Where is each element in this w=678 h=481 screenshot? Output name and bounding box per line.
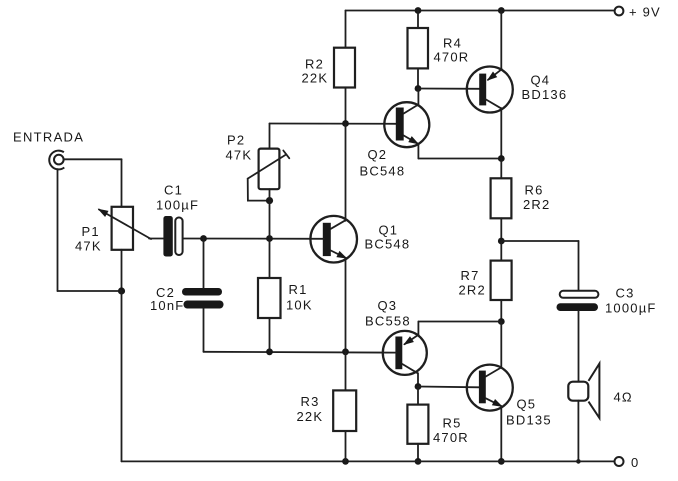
svg-text:P1: P1: [82, 224, 100, 239]
connector J1 input jack: [49, 151, 64, 170]
wire R6 bottom to output node: [500, 218, 502, 241]
resistor R2: [302, 48, 356, 88]
wire jack to P1 top: [64, 159, 122, 207]
resistor R7: [459, 261, 512, 300]
svg-text:470R: 470R: [433, 430, 469, 445]
transistor Q1: [310, 216, 410, 263]
wire node to R1: [269, 239, 271, 279]
svg-text:Q5: Q5: [517, 397, 537, 412]
svg-text:R6: R6: [525, 183, 544, 198]
wire R7 bottom: [500, 300, 502, 322]
svg-text:BD136: BD136: [522, 87, 568, 102]
junction Q4 collector / Q2 emitter / R6: [498, 155, 505, 162]
wire jack sleeve down and across: [58, 169, 122, 291]
svg-text:+ 9V: + 9V: [629, 5, 661, 20]
junction R3 / ground rail: [342, 458, 349, 465]
wire mid rail C2 to Q3 base: [204, 351, 397, 354]
svg-text:R7: R7: [461, 268, 480, 283]
junction R5 / ground rail: [415, 458, 422, 465]
wire R5 bottom to ground rail: [417, 444, 419, 462]
svg-text:BC558: BC558: [365, 314, 411, 329]
node 0V terminal: [615, 455, 640, 470]
wire C3 to speaker: [578, 311, 580, 382]
wire Q4 collector down: [500, 108, 502, 158]
junction C1 / C2: [200, 235, 207, 242]
junction top rail / Q4 emitter: [498, 7, 505, 14]
svg-text:ENTRADA: ENTRADA: [13, 130, 84, 145]
svg-text:R1: R1: [289, 282, 308, 297]
svg-text:47K: 47K: [226, 148, 253, 163]
svg-text:Q1: Q1: [379, 223, 399, 238]
junction P2 wiper loop: [266, 197, 273, 204]
resistor R4: [408, 28, 470, 68]
svg-text:Q3: Q3: [378, 298, 398, 313]
wire ground node down to rail: [121, 291, 123, 461]
capacitor C2: [150, 285, 224, 313]
wire Q3 collector down: [417, 373, 419, 386]
wire P1 wiper to C1: [149, 238, 163, 240]
node +9V terminal: [615, 5, 661, 20]
wire Q1 collector: [345, 124, 347, 221]
junction P1 bottom / jack ground: [118, 287, 125, 294]
junction Q5 emitter / ground rail: [498, 458, 505, 465]
wire R3 bottom to ground rail: [345, 431, 347, 461]
transistor Q3: [365, 298, 427, 375]
wire rail to R2: [345, 11, 347, 48]
svg-text:2R2: 2R2: [459, 283, 486, 298]
wire top +9V rail: [346, 10, 615, 12]
svg-text:BC548: BC548: [360, 164, 406, 179]
svg-text:R5: R5: [443, 416, 462, 431]
wire Q2 collector: [417, 89, 419, 105]
svg-text:C3: C3: [616, 286, 635, 301]
junction Q3 collector / R5 / Q5 base: [415, 383, 422, 390]
wire P1 bottom: [121, 250, 123, 291]
capacitor C3: [557, 286, 657, 316]
svg-text:Q4: Q4: [531, 73, 551, 88]
wire P2 top to Q2 base rail: [269, 124, 271, 149]
svg-text:P2: P2: [227, 133, 245, 148]
junction P2-R1 / Q1 base: [266, 235, 273, 242]
wire Q4 emitter to +9V rail: [500, 11, 502, 70]
svg-text:BC548: BC548: [365, 237, 411, 252]
wire C2 down to mid rail: [203, 309, 205, 352]
resistor R5: [407, 405, 468, 445]
wire Q5 emitter to ground rail: [500, 406, 502, 461]
svg-text:22K: 22K: [302, 71, 329, 86]
trimmer P2: [226, 133, 290, 201]
svg-text:470R: 470R: [434, 50, 470, 65]
svg-text:100µF: 100µF: [156, 198, 199, 213]
svg-text:22K: 22K: [297, 409, 324, 424]
wire R4 bottom: [417, 68, 419, 88]
wire R1 bottom to mid rail: [269, 318, 271, 352]
junction R2 / Q2 base / Q1 collector: [342, 120, 349, 127]
svg-text:47K: 47K: [75, 239, 102, 254]
resistor R1: [258, 278, 313, 318]
resistor R3: [297, 390, 357, 431]
wire R2 bottom to Q2 base node: [345, 88, 347, 124]
wire Q2 emitter down: [417, 144, 419, 159]
wire node to R3: [345, 352, 347, 391]
svg-text:10K: 10K: [286, 298, 313, 313]
svg-text:2R2: 2R2: [523, 197, 550, 212]
svg-text:Q2: Q2: [368, 147, 388, 162]
wire P2 bottom to Q1 base node: [269, 189, 271, 238]
wire Q5 collector up to node: [500, 322, 502, 368]
transistor Q2: [360, 102, 430, 178]
wire Q2 emitter to Q4 collector node: [418, 158, 501, 160]
wire output node to R7: [500, 241, 502, 261]
capacitor C1: [156, 183, 199, 257]
wire Q1 emitter down: [345, 258, 347, 352]
transistor Q5: [467, 365, 552, 428]
potentiometer P1: [75, 207, 151, 254]
wire Q3 emitter to node: [418, 322, 501, 335]
svg-text:R2: R2: [305, 57, 324, 72]
junction R7 / Q3 emitter / Q5 collector: [498, 318, 505, 325]
svg-text:0: 0: [631, 455, 639, 470]
junction speaker / ground rail: [576, 459, 581, 464]
wire node to R5: [417, 387, 419, 405]
junction R1 / mid rail: [266, 348, 273, 355]
junction R4 / Q2 collector / Q4 base: [415, 85, 422, 92]
svg-text:4Ω: 4Ω: [614, 390, 633, 405]
svg-text:BD135: BD135: [506, 413, 552, 428]
wire node to R6: [500, 159, 502, 179]
svg-text:10nF: 10nF: [150, 298, 184, 313]
wire output node to C3: [501, 241, 578, 291]
svg-text:R4: R4: [443, 36, 462, 51]
junction Q1 emitter / R3 / mid rail: [342, 348, 349, 355]
wire Q2 base rail: [270, 123, 397, 125]
wire Q4 base: [418, 88, 480, 90]
wire Q5 base: [418, 386, 479, 389]
junction output node R6/R7/C3: [498, 238, 505, 245]
resistor R6: [491, 178, 551, 218]
svg-text:1000µF: 1000µF: [605, 301, 657, 316]
wire Q1 base rail: [183, 238, 325, 240]
junction top rail / R4: [415, 7, 422, 14]
wire rail to R4: [417, 11, 419, 29]
wire speaker to ground rail: [577, 401, 579, 462]
svg-text:C1: C1: [164, 183, 183, 198]
speaker LS1 4 ohm: [568, 364, 633, 418]
wire bottom ground rail: [122, 460, 615, 462]
svg-text:R3: R3: [301, 394, 320, 409]
wire C1 node down to C2: [203, 239, 205, 289]
transistor Q4: [467, 67, 567, 113]
